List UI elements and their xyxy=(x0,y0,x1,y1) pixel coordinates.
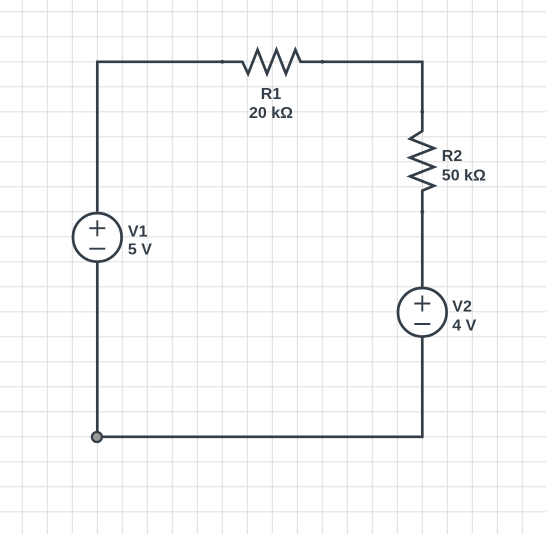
label R1 value 20 kOhm xyxy=(249,105,293,122)
label R2 name xyxy=(442,148,463,165)
svg-text:R1: R1 xyxy=(261,86,282,103)
label V1 name xyxy=(128,223,148,240)
label R2 value 50 kOhm xyxy=(442,168,486,185)
voltage source V1 xyxy=(73,213,122,262)
svg-text:4 V: 4 V xyxy=(452,317,476,334)
svg-text:50 kΩ: 50 kΩ xyxy=(442,168,486,185)
svg-text:R2: R2 xyxy=(442,148,463,165)
wire right-middle: from R2 to V2 xyxy=(421,212,424,288)
label V2 value 4 V xyxy=(452,317,476,334)
svg-text:5 V: 5 V xyxy=(128,242,152,259)
wire bottom: from V2 down, bottom wire, left vertical up to V1 xyxy=(97,337,423,437)
label R1 name xyxy=(261,86,282,103)
label V2 name xyxy=(452,298,472,315)
label V1 value 5 V xyxy=(128,242,152,259)
resistor R1 xyxy=(220,50,324,74)
svg-text:V1: V1 xyxy=(128,223,148,240)
svg-text:20 kΩ: 20 kΩ xyxy=(249,105,293,122)
svg-text:V2: V2 xyxy=(452,298,472,315)
wire top-left: left vertical upper segment + top wire to R1 xyxy=(97,62,222,212)
wire top-right: top wire from R1 to corner, down to R2 xyxy=(322,62,422,112)
node junction bottom-left xyxy=(92,432,102,442)
resistor R2 xyxy=(410,110,434,214)
voltage source V2 xyxy=(398,288,447,337)
wire left-lower: from node up to V1 xyxy=(96,262,99,437)
